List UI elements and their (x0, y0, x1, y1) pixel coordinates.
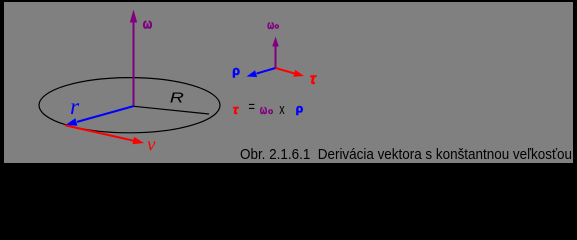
svg-text:o: o (268, 106, 273, 116)
label r (70, 94, 80, 120)
svg-text:v: v (147, 135, 156, 156)
svg-text:ω: ω (143, 16, 153, 32)
vector omega (angular velocity), purple up arrow (130, 10, 137, 106)
wire radius line R from center to ellipse edge (134, 106, 209, 114)
svg-text:o: o (275, 22, 280, 31)
svg-text:τ: τ (310, 71, 318, 88)
svg-text:τ: τ (233, 102, 239, 117)
triad vector rho, blue arrow down-left (247, 68, 276, 77)
svg-text:R: R (170, 91, 185, 107)
label omega (143, 16, 153, 32)
ellipse (circular path, plane of rotation) (39, 78, 220, 133)
caption text (240, 147, 572, 163)
svg-text:ω: ω (260, 103, 268, 117)
label v (147, 135, 156, 156)
svg-text:=: = (248, 98, 255, 115)
svg-text:ρ: ρ (296, 101, 303, 115)
label R (170, 91, 185, 107)
frame: black border around gray panel (4, 2, 573, 163)
vector v (velocity), red arrow (65, 125, 144, 144)
triad vector tau, red arrow down-right (276, 68, 305, 77)
svg-text:Obr. 2.1.6.1 Derivácia vektor: Obr. 2.1.6.1 Derivácia vektora s konštan… (240, 147, 572, 163)
label rho (232, 64, 240, 78)
formula tau = omega0 x rho (233, 98, 304, 118)
svg-text:x: x (279, 101, 285, 118)
svg-text:r: r (70, 94, 80, 120)
svg-text:ρ: ρ (232, 64, 240, 78)
svg-text:ω: ω (267, 18, 274, 32)
triad vector omega0, purple up arrow (272, 37, 279, 69)
label tau (310, 71, 318, 88)
vector r (radius vector), blue arrow (65, 106, 134, 126)
label omega0 (267, 18, 279, 32)
